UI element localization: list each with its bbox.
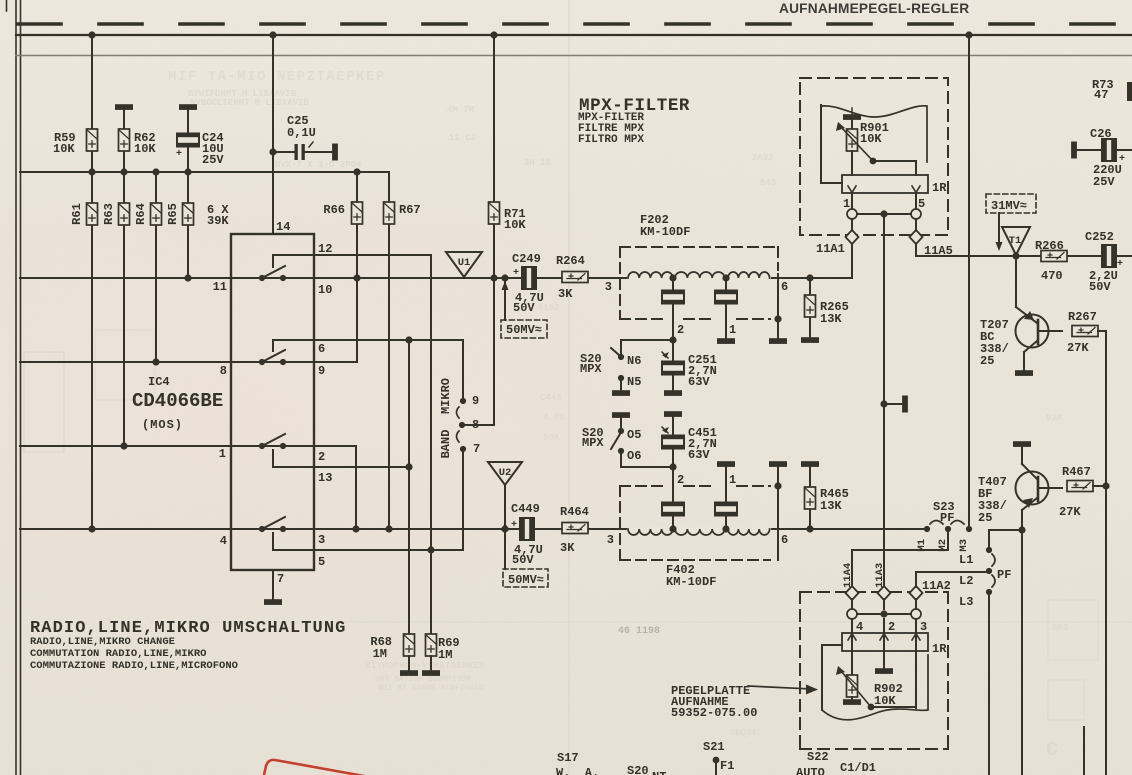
svg-text:50MV≈: 50MV≈ <box>506 323 542 337</box>
svg-text:470: 470 <box>1041 269 1063 283</box>
svg-text:1M: 1M <box>373 647 387 661</box>
svg-text:MPX: MPX <box>582 436 604 450</box>
switch S20a MPX N6/N5 <box>611 348 624 391</box>
svg-text:1: 1 <box>843 197 850 211</box>
svg-text:10K: 10K <box>860 132 882 146</box>
svg-text:L3: L3 <box>959 595 973 609</box>
switch S4 pins4/3 <box>259 517 286 550</box>
svg-text:R67: R67 <box>399 203 421 217</box>
transistor T407 <box>1016 446 1049 775</box>
pin5 wire <box>273 549 463 551</box>
svg-text:59352-075.00: 59352-075.00 <box>671 706 757 720</box>
svg-text:NT: NT <box>652 770 666 775</box>
terminal bar right of C25 <box>333 145 337 160</box>
wiper bus wire <box>857 213 911 215</box>
amplifier T1 <box>1002 227 1030 255</box>
svg-text:4,7U: 4,7U <box>543 413 565 423</box>
svg-text:8: 8 <box>472 418 479 432</box>
svg-text:COMMUTAZIONE RADIO,LINE,MICROF: COMMUTAZIONE RADIO,LINE,MICROFONO <box>30 660 238 672</box>
svg-text:47: 47 <box>1094 88 1108 102</box>
capacitor C26 <box>1076 149 1132 151</box>
transistor T207 <box>1016 256 1049 371</box>
resistor R266 <box>1041 251 1067 262</box>
svg-text:RADIO,LINE,MIKRO CHANGE: RADIO,LINE,MIKRO CHANGE <box>30 636 175 648</box>
svg-text:6: 6 <box>781 533 788 547</box>
svg-text:CD4066BE: CD4066BE <box>132 390 223 412</box>
svg-text:25V: 25V <box>202 153 224 167</box>
resistor R66 <box>352 202 363 224</box>
svg-text:10: 10 <box>318 283 332 297</box>
svg-text:1: 1 <box>729 473 736 487</box>
svg-text:2: 2 <box>677 473 684 487</box>
resistor R67 <box>384 202 395 224</box>
svg-text:S17: S17 <box>557 751 579 765</box>
switch S23 contacts M1 M2 M3 <box>924 521 972 533</box>
node F202 junctions <box>669 274 813 343</box>
F402 right leg <box>777 465 779 560</box>
svg-text:12: 12 <box>318 242 332 256</box>
svg-text:KM-10DF: KM-10DF <box>640 225 690 239</box>
svg-text:5: 5 <box>918 197 925 211</box>
svg-text:25: 25 <box>980 354 994 368</box>
svg-text:R63: R63 <box>102 203 116 225</box>
wire bottom-right stub <box>1083 727 1085 775</box>
node F402 junctions <box>669 482 813 532</box>
node U2/bus junction <box>501 525 508 532</box>
corner tick top-left <box>6 0 8 11</box>
svg-text:3: 3 <box>920 620 927 634</box>
svg-text:U2: U2 <box>499 467 512 479</box>
wire 11A3 column <box>883 214 885 587</box>
left border double line <box>15 0 17 775</box>
resistor R69 <box>426 634 437 656</box>
rail above S20b <box>613 413 629 417</box>
svg-text:7: 7 <box>473 442 480 456</box>
svg-text:2: 2 <box>318 450 325 464</box>
arrow 50mv lower <box>502 522 509 531</box>
capacitor C24 <box>177 134 199 147</box>
F402 shunt leg pin2 <box>672 467 674 529</box>
terminal stub mid <box>880 400 887 407</box>
node C451/O6 junction <box>669 463 676 470</box>
terminal bar mid pin2 <box>876 669 892 673</box>
svg-text:27K: 27K <box>1067 341 1089 355</box>
svg-text:M1: M1 <box>916 539 928 552</box>
svg-text:MPX: MPX <box>580 362 602 376</box>
svg-text:1: 1 <box>219 447 226 461</box>
svg-text:25V: 25V <box>1093 175 1115 189</box>
svg-text:COMMUTATION RADIO,LINE,MIKRO: COMMUTATION RADIO,LINE,MIKRO <box>30 648 206 660</box>
svg-text:13K: 13K <box>820 312 842 326</box>
svg-text:S22: S22 <box>807 750 829 764</box>
svg-text:50A: 50A <box>543 433 560 443</box>
50MV dashed box lower <box>503 569 548 587</box>
svg-text:R264: R264 <box>556 254 585 268</box>
svg-text:4M 7M: 4M 7M <box>447 105 474 115</box>
ground below T207 <box>1016 371 1032 375</box>
IC4 pin7 ground stub <box>272 570 274 600</box>
resistor R61 <box>87 203 98 225</box>
pin13 wire <box>273 466 409 468</box>
svg-text:63V: 63V <box>688 448 710 462</box>
svg-text:HIYROPHON-VERSTAERKER: HIYROPHON-VERSTAERKER <box>365 660 485 671</box>
node pin5 junction <box>427 546 434 553</box>
svg-text:92A: 92A <box>1046 413 1063 423</box>
wire 11A5 output <box>916 244 1132 256</box>
wire O6 to C451 leg <box>621 453 673 467</box>
wire T207 base <box>1038 330 1062 332</box>
svg-text:C1/D1: C1/D1 <box>840 761 876 775</box>
svg-text:F1: F1 <box>720 759 734 773</box>
R901 dashed box <box>800 78 948 235</box>
IC4 pin1 bus wire <box>20 445 283 447</box>
svg-text:C26: C26 <box>1090 127 1112 141</box>
wire L3 drop <box>988 592 990 775</box>
svg-text:KM-10DF: KM-10DF <box>666 575 716 589</box>
svg-text:W. A.: W. A. <box>556 766 599 775</box>
switch S1 pins11/10 <box>259 255 286 281</box>
svg-text:1: 1 <box>729 323 736 337</box>
IC4 pin4/3 bus wire <box>20 528 927 530</box>
resistor R264 <box>562 272 588 283</box>
ground below N5 <box>613 391 629 395</box>
resistor R464 <box>562 523 588 534</box>
svg-text:11A1: 11A1 <box>816 242 845 256</box>
svg-text:0,1U: 0,1U <box>287 126 316 140</box>
resistor R71 <box>489 202 500 224</box>
svg-text:11: 11 <box>213 280 227 294</box>
pot plate outline top <box>821 106 927 162</box>
svg-text:R61: R61 <box>70 203 84 225</box>
svg-text:M2: M2 <box>937 539 949 552</box>
diamond 11A2 <box>910 586 923 600</box>
svg-text:+: + <box>511 520 517 531</box>
IC4 package box <box>231 234 314 570</box>
svg-text:11A2: 11A2 <box>922 579 951 593</box>
resistor R59 <box>87 129 98 151</box>
svg-text:10K: 10K <box>134 142 156 156</box>
svg-text:10K: 10K <box>504 218 526 232</box>
svg-text:7: 7 <box>277 572 284 586</box>
filter F202 dashed box <box>620 247 778 319</box>
svg-text:46 1198: 46 1198 <box>618 626 660 637</box>
switch S20b MPX O5/O6 <box>611 428 624 454</box>
node bus-172 junctions <box>88 168 360 175</box>
svg-text:2A92: 2A92 <box>752 153 774 163</box>
rotary switch BAND/MIKRO contacts 9/8/7 <box>457 398 467 452</box>
wire S21 F1 stub <box>713 757 720 764</box>
wire R267 to right column <box>1098 331 1106 775</box>
svg-text:50V: 50V <box>513 301 535 315</box>
node left bus junctions <box>88 274 497 532</box>
svg-text:R464: R464 <box>560 505 589 519</box>
svg-text:M3: M3 <box>958 539 970 552</box>
op-amp U1 <box>446 252 482 277</box>
wire x409 drop to R68 <box>408 340 410 634</box>
rail bar above R62 <box>116 105 132 109</box>
S22 dashed box <box>800 592 948 749</box>
svg-text:SbQ4t: SbQ4t <box>730 728 757 738</box>
svg-text:R266: R266 <box>1035 239 1064 253</box>
connector strip 1R top <box>842 175 928 193</box>
svg-text:63V: 63V <box>688 375 710 389</box>
svg-text:NVBGCLIEHMT H LIBXAVIB: NVBGCLIEHMT H LIBXAVIB <box>190 98 309 108</box>
dashed top rail <box>18 22 1132 26</box>
svg-text:5: 5 <box>318 555 325 569</box>
svg-text:14: 14 <box>276 220 290 234</box>
wire x494 drop through R71 <box>493 35 495 425</box>
wire T407 base <box>1038 487 1062 489</box>
pin6 wire to BAND/MIKRO switch <box>273 340 463 401</box>
svg-text:50MV≈: 50MV≈ <box>508 573 544 587</box>
svg-text:L1: L1 <box>959 553 973 567</box>
svg-text:50V: 50V <box>512 553 534 567</box>
svg-text:2: 2 <box>888 620 895 634</box>
svg-text:3: 3 <box>318 533 325 547</box>
ground below C251 <box>665 391 681 395</box>
wire L1 to T407 emitter column <box>989 530 1022 550</box>
pin2 wire <box>283 446 356 529</box>
svg-text:13: 13 <box>318 471 332 485</box>
svg-text:NVX-7 X 1-O 3PO4: NVX-7 X 1-O 3PO4 <box>275 160 362 170</box>
svg-text:N6: N6 <box>627 354 641 368</box>
svg-text:9: 9 <box>318 364 325 378</box>
svg-text:3: 3 <box>607 533 614 547</box>
svg-text:AUFNAHMEPEGEL-REGLER: AUFNAHMEPEGEL-REGLER <box>779 1 969 16</box>
pot plate outline bottom <box>822 644 842 646</box>
svg-text:11A4: 11A4 <box>842 563 854 588</box>
svg-text:9: 9 <box>472 394 479 408</box>
rail above T407 <box>1014 442 1030 446</box>
switch PF contacts L1 L2 L3 <box>986 547 995 595</box>
arrow 50mv upper line <box>504 279 506 320</box>
ground below pin7 <box>265 600 281 604</box>
svg-text:84S: 84S <box>760 178 777 188</box>
capacitor C451 <box>672 415 674 467</box>
wire BAND contact7 drop <box>462 452 464 550</box>
svg-text:O6: O6 <box>627 449 641 463</box>
rail bar above C24 <box>180 105 196 109</box>
node T407 emitter junction <box>1018 526 1025 533</box>
svg-text:10K: 10K <box>53 142 75 156</box>
wire pin2 to S20a <box>621 340 673 356</box>
diamond 11A1 <box>851 219 853 230</box>
diamond 11A5 <box>915 219 917 230</box>
svg-text:(MOS): (MOS) <box>142 418 183 432</box>
svg-text:L2: L2 <box>959 574 973 588</box>
svg-text:O5: O5 <box>627 428 641 442</box>
F402 shunt leg pin1 <box>725 465 727 529</box>
potentiometer R902 <box>847 675 858 697</box>
F202 right ground leg <box>777 274 779 339</box>
svg-text:+: + <box>1117 259 1123 270</box>
F202 shunt cap pin1 <box>725 278 727 339</box>
F202 shunt cap pin2 <box>672 278 674 340</box>
rail above F402 right leg <box>770 462 786 466</box>
svg-text:3H 18: 3H 18 <box>524 158 551 168</box>
capacitor C249 <box>522 267 536 289</box>
node pin6 junction <box>405 336 412 343</box>
svg-text:3: 3 <box>605 280 612 294</box>
svg-text:+: + <box>176 149 182 160</box>
pins below strip <box>851 193 853 209</box>
bus 39K row <box>20 171 389 173</box>
resistor R68 <box>404 634 415 656</box>
svg-text:AUTO: AUTO <box>796 766 825 775</box>
svg-text:11 C2: 11 C2 <box>449 133 476 143</box>
svg-text:1M: 1M <box>438 648 452 662</box>
top bus wire <box>16 34 1132 36</box>
connector strip 1R bottom <box>851 619 853 675</box>
svg-text:PF: PF <box>940 511 954 525</box>
ground below R68 <box>408 656 410 671</box>
switch S3 pins1/2 <box>259 434 286 467</box>
wire x124 drop <box>123 110 125 446</box>
svg-text:4: 4 <box>220 534 227 548</box>
wire U2 output to bus <box>504 485 506 569</box>
wire M2 to 11A4 <box>852 529 948 587</box>
svg-text:+: + <box>513 268 519 279</box>
capacitor C25 <box>269 142 333 160</box>
resistor R73 body sliver <box>1127 82 1132 101</box>
svg-text:MIF TA-MIO NEPZTAEPKEP: MIF TA-MIO NEPZTAEPKEP <box>168 69 386 85</box>
svg-text:BG1 RT SAHBR MTBFIMBAD: BG1 RT SAHBR MTBFIMBAD <box>378 684 484 693</box>
wire x188 drop <box>187 110 189 278</box>
wire x92 drop <box>91 35 93 529</box>
IC4 pin8 bus wire <box>20 361 283 363</box>
resistor R265 leg <box>809 278 811 338</box>
svg-text:C: C <box>1046 739 1058 762</box>
svg-text:31MV≈: 31MV≈ <box>991 199 1027 213</box>
svg-text:S20: S20 <box>627 764 649 775</box>
inductor F402 coils <box>628 529 673 535</box>
wire x156 drop <box>155 172 157 362</box>
potentiometer R901 <box>844 115 860 119</box>
wire R467 to column <box>1093 485 1106 487</box>
svg-text:8M3: 8M3 <box>1052 623 1068 633</box>
diamond 11A4 <box>846 586 859 600</box>
svg-text:UHT SATIOM BOOMMIYOM: UHT SATIOM BOOMMIYOM <box>375 675 471 684</box>
svg-text:R65: R65 <box>166 203 180 225</box>
svg-text:U1: U1 <box>458 257 471 269</box>
R901 wiper wire <box>873 161 916 175</box>
wire R66 drop <box>356 172 358 362</box>
svg-text:25: 25 <box>978 511 992 525</box>
resistor R64 <box>151 203 162 225</box>
svg-text:C449: C449 <box>511 502 540 516</box>
svg-text:13K: 13K <box>820 499 842 513</box>
svg-text:PF: PF <box>997 568 1011 582</box>
faint fold line <box>568 0 570 775</box>
IC4 pin11/10 bus wire <box>20 277 851 279</box>
svg-text:C252: C252 <box>1085 230 1114 244</box>
arrow PEGELPLATTE <box>748 686 812 689</box>
capacitor C252 <box>1102 245 1116 267</box>
switch S2 pins8/9 <box>259 340 286 365</box>
svg-text:T1: T1 <box>1009 235 1022 247</box>
svg-text:3K: 3K <box>558 287 573 301</box>
svg-text:10K: 10K <box>874 694 896 708</box>
pin9 wire <box>283 278 357 362</box>
wire R67 drop <box>388 172 390 529</box>
resistor R65 <box>183 203 194 225</box>
resistor R465 leg <box>802 462 818 466</box>
svg-text:BAND: BAND <box>439 430 453 459</box>
ground below R69 <box>430 656 432 671</box>
pin12 wire <box>273 255 431 550</box>
svg-text:4: 4 <box>856 620 863 634</box>
svg-text:39K: 39K <box>207 214 229 228</box>
svg-text:11A5: 11A5 <box>924 244 953 258</box>
diamond 11A3 <box>878 586 891 600</box>
capacitor C449 <box>520 518 534 540</box>
svg-text:C249: C249 <box>512 252 541 266</box>
wire 11A2 to L2 <box>916 572 989 587</box>
wire x969 drop to S23 M3 <box>968 35 970 529</box>
50MV dashed box upper <box>501 320 547 338</box>
wire x273 drop to IC pin 14 <box>272 35 274 234</box>
svg-text:6: 6 <box>781 280 788 294</box>
svg-text:N5: N5 <box>627 375 641 389</box>
resistor R467 <box>1067 481 1093 492</box>
svg-text:27K: 27K <box>1059 505 1081 519</box>
svg-text:C448: C448 <box>540 393 562 403</box>
svg-text:R66: R66 <box>323 203 345 217</box>
svg-text:1R: 1R <box>932 181 947 195</box>
svg-text:R267: R267 <box>1068 310 1097 324</box>
op-amp U2 <box>488 462 522 485</box>
filter F402 dashed box <box>620 486 770 560</box>
capacitor C251 <box>672 340 674 391</box>
svg-text:2: 2 <box>677 323 684 337</box>
svg-text:MIKRO: MIKRO <box>439 378 453 414</box>
rail above C451 <box>665 412 681 416</box>
wire contact8 to R71 line <box>462 424 494 426</box>
node top bus junctions <box>88 31 972 38</box>
ghost rects <box>24 330 1098 720</box>
inductor F202 coils <box>628 272 673 278</box>
wire x431 to R69 <box>430 550 432 634</box>
svg-text:IC4: IC4 <box>148 375 170 389</box>
31MV dashed box <box>986 194 1036 213</box>
svg-text:6: 6 <box>318 342 325 356</box>
arrow 31MV <box>998 213 1000 245</box>
svg-text:1R: 1R <box>932 642 947 656</box>
svg-text:3K: 3K <box>560 541 575 555</box>
svg-text:8: 8 <box>220 364 227 378</box>
svg-text:11A3: 11A3 <box>874 563 886 588</box>
svg-text:S21: S21 <box>703 740 725 754</box>
pins below diamonds <box>851 599 853 609</box>
rail above F402 pin1 <box>718 462 734 466</box>
svg-text:50V: 50V <box>1089 280 1111 294</box>
resistor R267 <box>1072 326 1098 337</box>
resistor R63 <box>119 203 130 225</box>
svg-text:FILTRO MPX: FILTRO MPX <box>578 134 644 146</box>
resistor R62 <box>119 129 130 151</box>
node pin13 junction <box>405 463 412 470</box>
red overlay corner <box>264 760 364 775</box>
svg-text:R64: R64 <box>134 203 148 225</box>
secondary light rail <box>16 55 1132 57</box>
svg-text:R467: R467 <box>1062 465 1091 479</box>
